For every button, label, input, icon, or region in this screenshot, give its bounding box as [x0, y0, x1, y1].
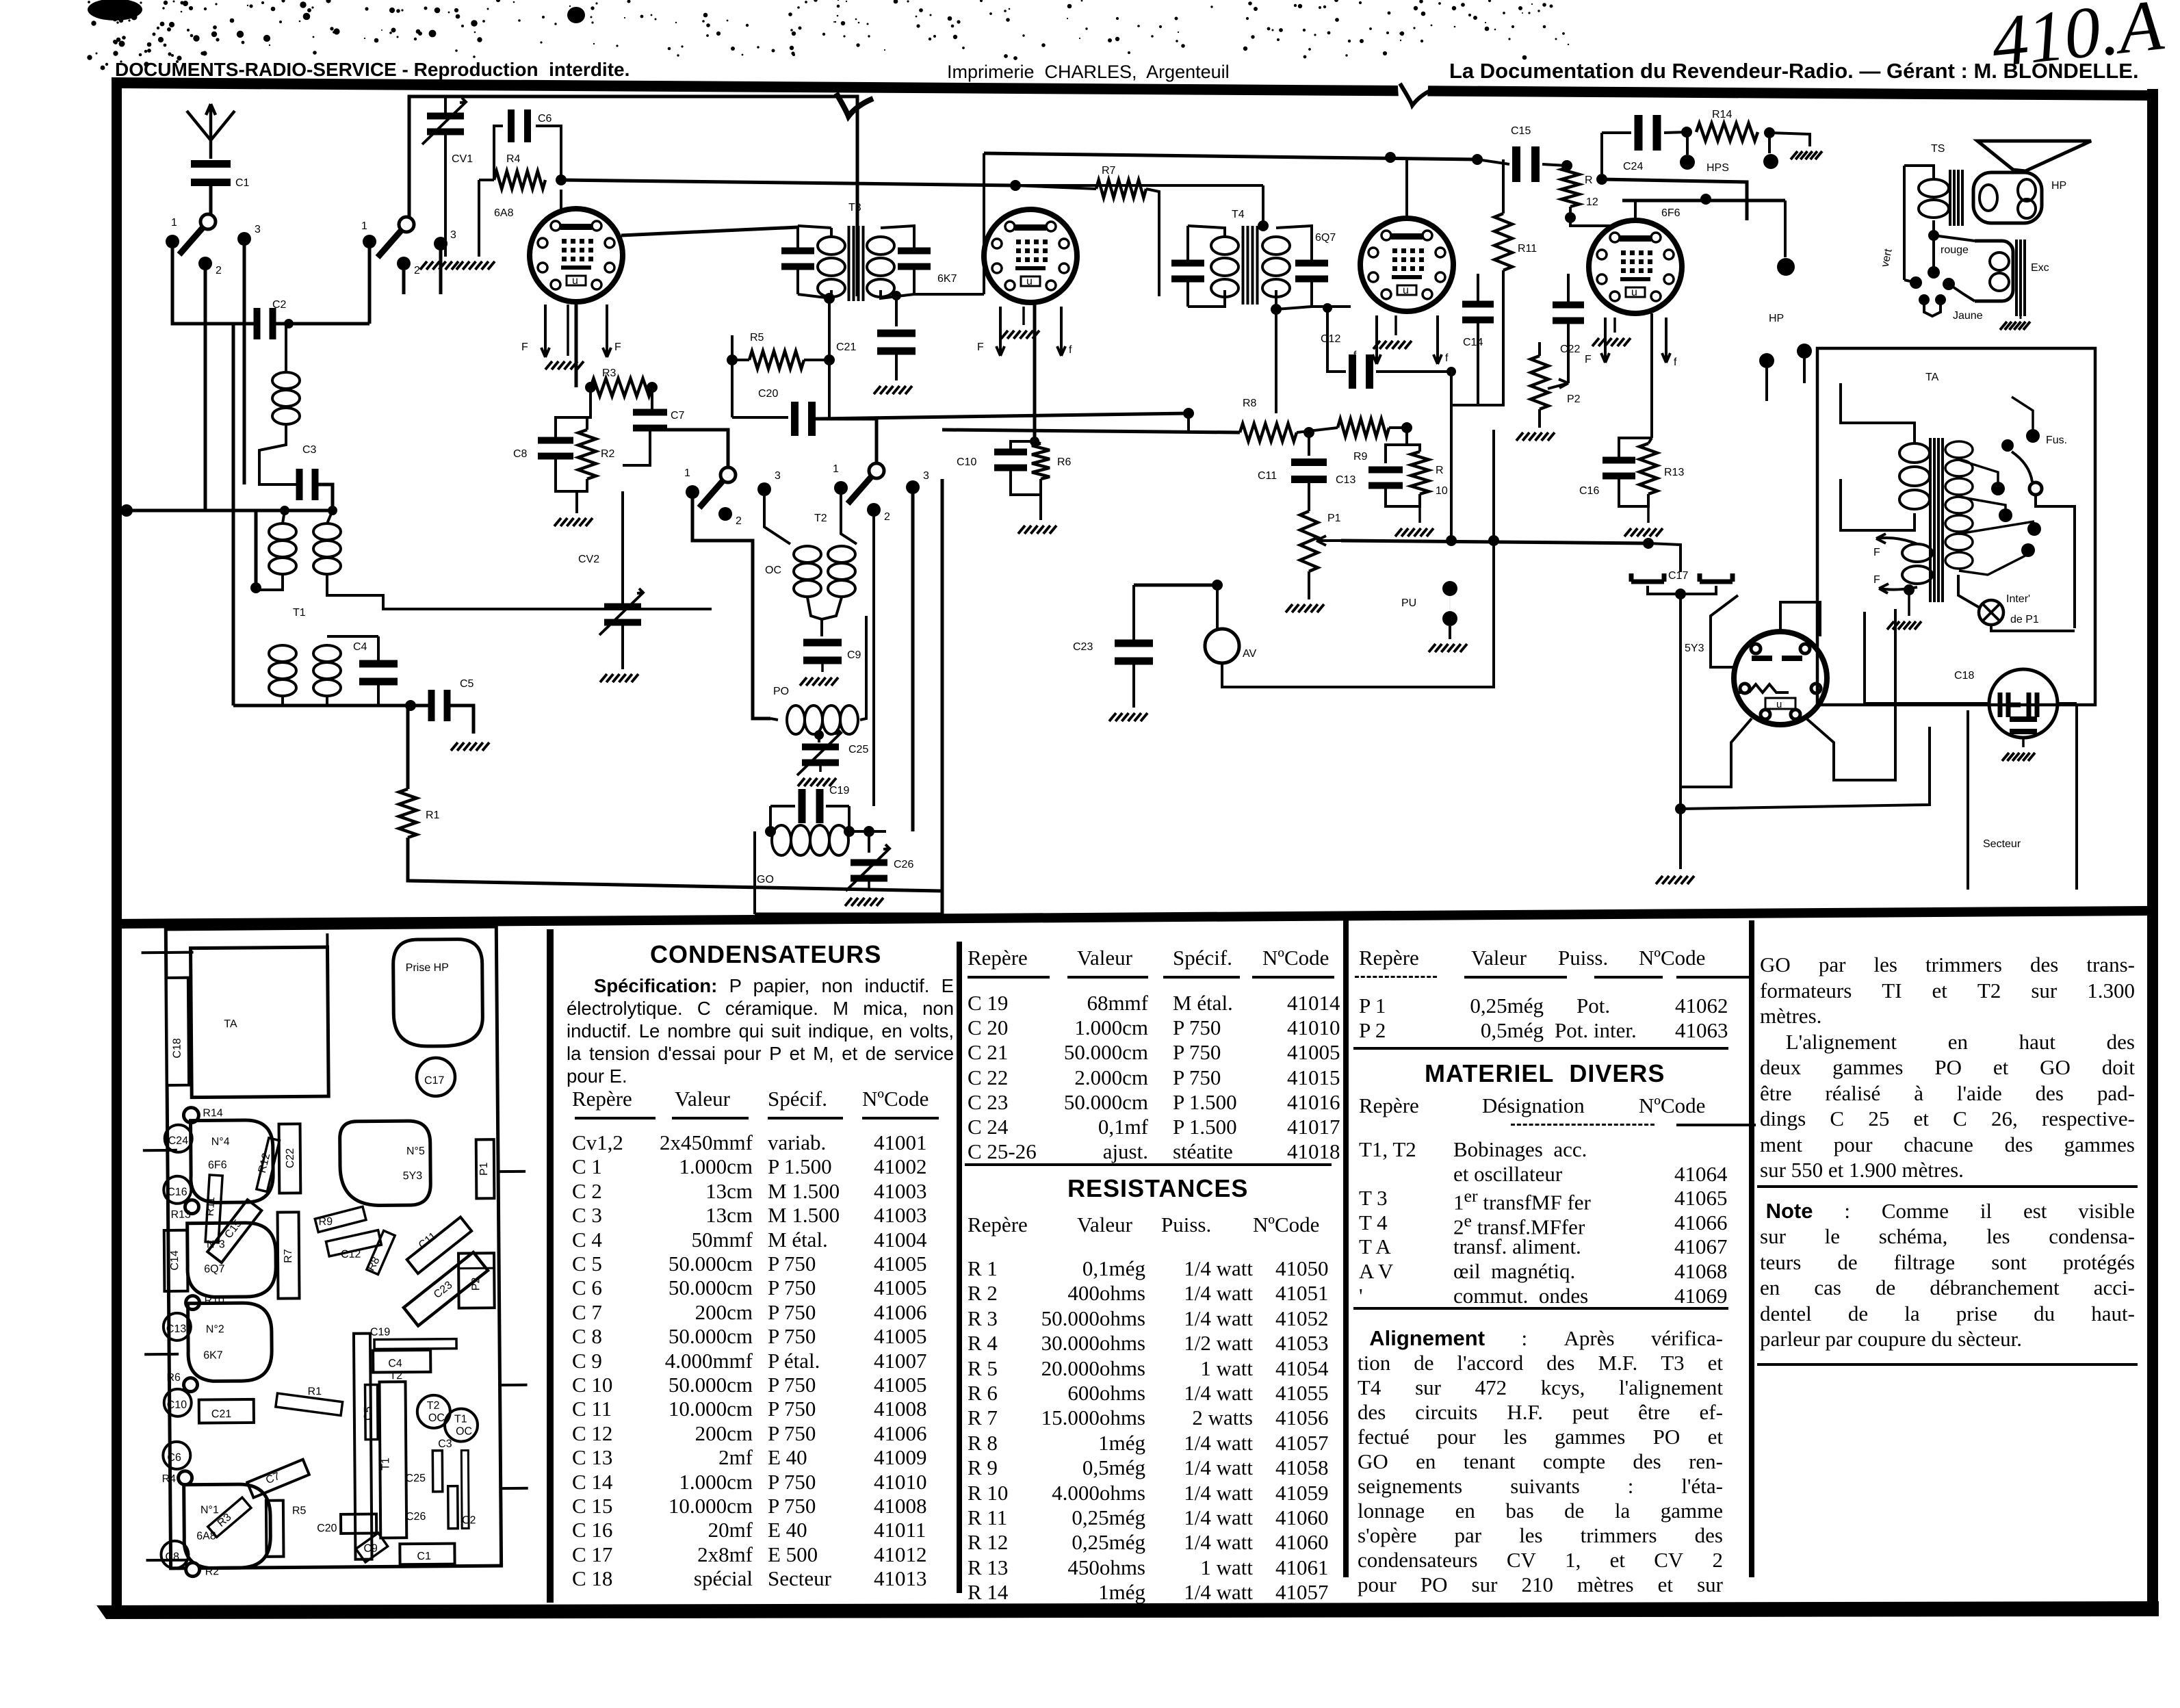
- R9 (chassis): [315, 1206, 366, 1232]
- svg-text:vert: vert: [1880, 248, 1895, 268]
- svg-text:R6: R6: [166, 1372, 181, 1384]
- tube 5Y3 (rectifier): [1734, 632, 1827, 725]
- wire: [813, 419, 877, 463]
- svg-text:u: u: [1026, 276, 1033, 287]
- wire 6A8 plate to T3: [621, 227, 798, 235]
- svg-text:C26: C26: [894, 859, 913, 870]
- svg-text:N°5: N°5: [406, 1146, 425, 1157]
- svg-text:Prise HP: Prise HP: [406, 962, 449, 974]
- TA secondary: [1945, 441, 1973, 458]
- ground: [798, 778, 836, 786]
- wire: [1679, 594, 1682, 809]
- svg-text:R9: R9: [1353, 451, 1368, 463]
- R8 (chassis): [367, 1230, 395, 1274]
- ground: [1791, 151, 1822, 159]
- ground: [1613, 318, 1616, 333]
- border frame bottom: [96, 1601, 2159, 1619]
- wire: [1134, 584, 1217, 587]
- ground: [800, 677, 838, 686]
- resistor R7: [1096, 180, 1146, 198]
- C9 (chassis): [356, 1533, 388, 1562]
- svg-text:HPS: HPS: [1707, 162, 1729, 174]
- svg-text:C10: C10: [957, 456, 976, 468]
- svg-text:C16: C16: [1579, 485, 1599, 497]
- resistor R8: [1240, 424, 1297, 441]
- svg-text:C3: C3: [302, 444, 317, 456]
- resistor R1: [406, 706, 410, 789]
- ground: [874, 386, 912, 394]
- svg-text:T1: T1: [380, 1458, 391, 1471]
- svg-text:T4: T4: [1232, 209, 1245, 220]
- wire: [1634, 200, 1637, 220]
- svg-text:10: 10: [1436, 485, 1448, 497]
- scan noise: [569, 5, 571, 7]
- capacitor C5: [428, 690, 435, 721]
- svg-text:C20: C20: [317, 1523, 337, 1534]
- wire left vertical: [232, 324, 235, 706]
- C20 (chassis): [341, 1514, 376, 1534]
- capacitor C6: [508, 109, 515, 142]
- lamp Inter de P1: [1979, 600, 2003, 625]
- transformer T1: [269, 523, 296, 540]
- svg-text:R11: R11: [1518, 243, 1537, 255]
- resistor R10: [1407, 445, 1420, 452]
- column divider 3: [1343, 920, 1349, 1577]
- ground: [554, 518, 593, 526]
- fold mark: [1397, 75, 1429, 108]
- wire mid rail: [818, 413, 1189, 419]
- ground: [2020, 316, 2022, 319]
- svg-text:f: f: [1674, 357, 1677, 368]
- svg-text:R: R: [1436, 465, 1444, 476]
- svg-text:OC: OC: [428, 1412, 445, 1424]
- svg-text:F: F: [977, 341, 984, 353]
- wire 6K7 plate: [1033, 302, 1037, 441]
- wire: [634, 430, 728, 467]
- svg-text:C25: C25: [406, 1473, 426, 1484]
- svg-text:T1: T1: [454, 1413, 467, 1425]
- capacitor C23: [1115, 640, 1153, 647]
- resistor R5: [749, 351, 804, 369]
- svg-text:C22: C22: [1560, 344, 1580, 355]
- wire: [233, 704, 429, 708]
- wire: [172, 248, 257, 324]
- svg-text:C15: C15: [1511, 125, 1531, 137]
- potentiometer P2: [1548, 379, 1568, 389]
- svg-text:P2: P2: [470, 1277, 482, 1291]
- svg-text:3: 3: [450, 229, 456, 241]
- P2 (chassis): [458, 1253, 495, 1308]
- svg-text:P2: P2: [1567, 393, 1581, 405]
- ground: [1394, 315, 1397, 335]
- svg-text:N°2: N°2: [206, 1323, 224, 1335]
- C24 (chassis): [165, 1125, 192, 1152]
- resistor R13: [1639, 443, 1657, 494]
- wire: [872, 516, 875, 806]
- C21 (chassis): [199, 1399, 254, 1423]
- svg-text:C9: C9: [847, 649, 861, 661]
- svg-text:C23: C23: [1073, 641, 1093, 653]
- resistor R12: [1561, 167, 1579, 207]
- svg-text:Jaune: Jaune: [1953, 310, 1983, 322]
- wire: [1780, 602, 1820, 636]
- svg-text:C2: C2: [272, 299, 287, 311]
- svg-text:u: u: [1776, 699, 1782, 710]
- svg-text:C20: C20: [758, 388, 778, 400]
- ground: [1109, 713, 1147, 721]
- wire: [243, 245, 246, 484]
- svg-text:C6: C6: [538, 113, 552, 125]
- magic eye AV: [1205, 629, 1239, 663]
- svg-text:C25: C25: [848, 744, 868, 755]
- wire: [318, 484, 333, 510]
- wires TS bottom: [1934, 235, 1975, 241]
- svg-text:R11: R11: [205, 1196, 218, 1216]
- chassis layout box: [141, 927, 528, 1578]
- svg-text:C4: C4: [388, 1358, 402, 1369]
- svg-text:C24: C24: [168, 1135, 189, 1147]
- wire top box 6Q7: [984, 153, 1477, 159]
- wire: [1865, 612, 1989, 703]
- svg-text:C19: C19: [829, 785, 849, 797]
- wire 6Q7 top: [1405, 159, 1408, 218]
- svg-text:CV2: CV2: [578, 554, 599, 565]
- R1 (chassis): [276, 1393, 343, 1415]
- svg-text:C14: C14: [1463, 337, 1483, 348]
- svg-text:TS: TS: [1931, 143, 1945, 155]
- svg-text:HP: HP: [1769, 313, 1784, 324]
- R14 (chassis): [183, 1108, 198, 1123]
- svg-text:6K7: 6K7: [937, 273, 957, 285]
- wire: [204, 270, 207, 510]
- capacitor C19: [799, 789, 806, 823]
- svg-text:rouge: rouge: [1941, 244, 1969, 256]
- capacitor C10: [994, 449, 1027, 456]
- capacitor C1: [191, 160, 231, 168]
- R13 (chassis): [185, 1200, 198, 1214]
- wire: [1600, 133, 1603, 179]
- wire: [764, 495, 790, 544]
- R4 (chassis): [179, 1471, 192, 1485]
- tube 6Q7: [1360, 218, 1453, 311]
- svg-text:N°3: N°3: [207, 1239, 225, 1250]
- divider line: [113, 906, 2147, 929]
- node: [284, 319, 294, 328]
- border frame right: [2147, 89, 2158, 1614]
- svg-text:C5: C5: [460, 678, 474, 690]
- svg-text:f: f: [1445, 352, 1449, 364]
- ground: [1516, 432, 1555, 441]
- svg-text:C1: C1: [235, 177, 250, 189]
- wire top rail: [409, 96, 857, 296]
- svg-text:u: u: [1631, 287, 1637, 298]
- capacitor C20: [791, 402, 799, 436]
- svg-text:R6: R6: [1057, 456, 1072, 468]
- svg-text:R9: R9: [319, 1216, 333, 1228]
- svg-text:C8: C8: [513, 448, 528, 460]
- svg-text:PU: PU: [1401, 597, 1416, 609]
- transformer TA (chassis): [191, 947, 329, 1098]
- chassis tick marks: [141, 932, 528, 1560]
- capacitor C11: [1308, 432, 1310, 456]
- svg-text:C18: C18: [1954, 670, 1974, 682]
- taps: [1959, 460, 1998, 483]
- svg-text:6K7: 6K7: [203, 1349, 223, 1361]
- svg-text:C17: C17: [424, 1075, 445, 1087]
- resistor R3: [591, 378, 652, 396]
- svg-text:6Q7: 6Q7: [204, 1263, 224, 1275]
- resistor R14: [1696, 123, 1758, 141]
- svg-text:C3: C3: [438, 1438, 452, 1450]
- transformer TA: [1899, 443, 1930, 463]
- ground: [1656, 876, 1694, 884]
- wire: [1711, 595, 1738, 667]
- svg-text:P1: P1: [478, 1162, 490, 1176]
- svg-text:N°1: N°1: [200, 1504, 219, 1516]
- svg-text:T2: T2: [427, 1400, 440, 1412]
- column divider 1: [547, 929, 554, 1603]
- svg-text:C6: C6: [167, 1452, 181, 1464]
- svg-text:C21: C21: [211, 1408, 232, 1420]
- variable capacitor CV1: [427, 113, 464, 120]
- svg-text:C16: C16: [167, 1187, 187, 1198]
- svg-text:2: 2: [736, 515, 742, 527]
- wire grid link: [914, 293, 984, 296]
- C14 (chassis): [164, 1230, 188, 1291]
- svg-text:F: F: [1873, 547, 1880, 558]
- antenna: [187, 104, 235, 159]
- svg-text:CV1: CV1: [452, 153, 473, 165]
- svg-text:C21: C21: [836, 341, 856, 353]
- resistor R2: [578, 430, 596, 479]
- wire oscillator box: [941, 479, 944, 914]
- wire: [368, 248, 372, 324]
- capacitor C24: [1635, 115, 1643, 151]
- R3 (chassis): [208, 1497, 251, 1537]
- svg-text:6Q7: 6Q7: [1315, 232, 1336, 244]
- svg-text:R2: R2: [601, 448, 615, 460]
- R7 (chassis): [278, 1212, 300, 1298]
- svg-text:GO: GO: [757, 874, 774, 885]
- svg-text:R7: R7: [283, 1249, 294, 1263]
- wire 6F6 cathode: [1650, 313, 1653, 438]
- secteur leads: [1967, 710, 1969, 890]
- svg-text:1: 1: [171, 217, 177, 229]
- svg-text:R: R: [1585, 174, 1593, 186]
- T2 OC / T1 OC discs (chassis): [417, 1395, 450, 1428]
- R12 (chassis): [257, 1138, 280, 1192]
- svg-text:PO: PO: [773, 686, 789, 697]
- switch S2: [378, 224, 406, 257]
- wire: [273, 322, 369, 326]
- svg-text:R13: R13: [170, 1209, 191, 1221]
- svg-text:R14: R14: [1712, 109, 1732, 120]
- svg-text:C18: C18: [172, 1038, 183, 1059]
- coil PO: [787, 706, 805, 734]
- svg-text:C13: C13: [1336, 474, 1355, 486]
- trimmer C26: [868, 831, 870, 853]
- svg-text:P1: P1: [1327, 513, 1341, 524]
- capacitor C16: [1602, 457, 1635, 464]
- wire: [1492, 430, 1495, 541]
- svg-text:C14: C14: [169, 1250, 181, 1271]
- tube N3 6Q7 (chassis): [187, 1223, 276, 1297]
- capacitor C12: [1326, 308, 1329, 346]
- svg-text:R1: R1: [308, 1386, 322, 1397]
- wire plate: [575, 302, 578, 387]
- wire: [692, 498, 770, 719]
- Prise HP: [393, 939, 482, 1046]
- svg-text:Exc: Exc: [2031, 262, 2049, 274]
- tube N5 5Y3 (chassis): [339, 1121, 430, 1206]
- ground: [1018, 526, 1056, 534]
- C1 (chassis): [400, 1544, 454, 1565]
- svg-text:R1: R1: [426, 810, 440, 821]
- svg-text:1: 1: [684, 467, 690, 479]
- svg-text:R4: R4: [506, 153, 521, 165]
- potentiometer P1: [1300, 511, 1318, 571]
- wire: [911, 493, 915, 831]
- svg-text:C11: C11: [1258, 470, 1277, 482]
- switch S3: [699, 475, 728, 508]
- P1 (chassis): [476, 1139, 495, 1198]
- svg-text:R3: R3: [602, 367, 617, 379]
- ground: [451, 742, 489, 751]
- wire: [1769, 133, 1810, 146]
- C10 (chassis): [164, 1389, 192, 1416]
- tube 6K7: [984, 209, 1077, 302]
- svg-text:3: 3: [923, 470, 929, 482]
- wire: [1450, 372, 1453, 540]
- svg-text:R12: R12: [257, 1152, 272, 1174]
- svg-text:C4: C4: [353, 641, 367, 653]
- ground: [1887, 621, 1921, 630]
- border frame top rule: [112, 77, 2157, 101]
- column divider 2: [957, 942, 962, 1593]
- wire AVC bus: [1341, 541, 1648, 543]
- svg-text:R4: R4: [162, 1473, 177, 1485]
- ground: [1395, 528, 1433, 536]
- capacitor C7: [633, 409, 667, 416]
- svg-text:HP: HP: [2051, 180, 2066, 192]
- wire: [209, 184, 213, 216]
- wire: [1187, 413, 1190, 432]
- wire: [1648, 543, 1681, 572]
- svg-text:de P1: de P1: [2010, 614, 2039, 625]
- C6 (chassis): [163, 1442, 190, 1469]
- svg-text:2: 2: [414, 265, 420, 276]
- svg-text:TA: TA: [224, 1018, 237, 1030]
- svg-text:f: f: [1069, 344, 1072, 356]
- capacitor C3: [296, 469, 303, 500]
- wire: [1602, 179, 1747, 220]
- ground: [1022, 307, 1025, 325]
- svg-text:C26: C26: [406, 1511, 426, 1523]
- wire: [450, 706, 473, 734]
- wire: [1681, 727, 1930, 809]
- C22 (chassis): [279, 1124, 301, 1193]
- fuse Fus: [2026, 429, 2040, 443]
- resistor R9: [1338, 419, 1389, 437]
- wire grid: [1312, 305, 1351, 308]
- node: [250, 582, 261, 593]
- switch S4: [848, 471, 877, 504]
- svg-text:6F6: 6F6: [1661, 207, 1681, 219]
- capacitor C9: [803, 639, 842, 647]
- tube 6F6: [1589, 220, 1682, 313]
- switch S1 (antenna): [179, 222, 208, 255]
- svg-text:C17: C17: [1668, 570, 1688, 582]
- R2 (chassis): [186, 1563, 200, 1577]
- svg-text:u: u: [572, 275, 578, 287]
- svg-text:TA: TA: [1925, 372, 1939, 383]
- C16 (chassis): [164, 1176, 191, 1204]
- capacitor C18 (secteur): [1989, 669, 2058, 738]
- svg-text:OC: OC: [456, 1425, 472, 1437]
- C12 (chassis): [326, 1230, 381, 1256]
- ground: [1286, 604, 1324, 612]
- wire: [402, 270, 406, 294]
- svg-text:Fus.: Fus.: [2046, 435, 2067, 446]
- speaker voice coil HP: [1973, 172, 2042, 223]
- ground: [1624, 528, 1663, 536]
- C23 (chassis): [404, 1252, 488, 1325]
- C15 (chassis): [207, 1200, 261, 1263]
- svg-text:N°4: N°4: [211, 1136, 230, 1148]
- C11 (chassis): [407, 1217, 471, 1274]
- capacitor C15: [1512, 146, 1520, 182]
- node: [1928, 230, 1939, 241]
- svg-text:T3: T3: [848, 202, 861, 213]
- svg-text:1: 1: [361, 220, 367, 232]
- tube 6A8: [530, 209, 623, 302]
- svg-text:5Y3: 5Y3: [1685, 643, 1704, 654]
- svg-text:5Y3: 5Y3: [403, 1170, 423, 1182]
- svg-text:Secteur: Secteur: [1983, 838, 2021, 850]
- svg-text:R5: R5: [750, 332, 764, 344]
- svg-text:12: 12: [1586, 196, 1598, 208]
- wire rail: [942, 430, 1240, 432]
- capacitor C4: [359, 660, 398, 668]
- C3 C2 (chassis): [432, 1451, 442, 1492]
- node: [556, 174, 567, 185]
- svg-text:C13: C13: [166, 1323, 187, 1335]
- coil T1 osc coupling: [272, 372, 300, 389]
- svg-text:C12: C12: [341, 1249, 361, 1260]
- resistor R6: [1032, 443, 1050, 479]
- wire: [1784, 200, 1787, 257]
- svg-text:F: F: [1585, 354, 1592, 365]
- ground: [1429, 644, 1467, 652]
- winding Exc: [1975, 241, 2013, 301]
- svg-text:1: 1: [833, 463, 839, 475]
- svg-text:3: 3: [255, 224, 261, 235]
- column divider 4: [1749, 920, 1754, 1577]
- svg-text:C9: C9: [363, 1543, 378, 1555]
- speaker cone: [1977, 141, 2091, 171]
- svg-text:6F6: 6F6: [208, 1159, 227, 1171]
- tube N2 6K7 (chassis): [187, 1303, 272, 1382]
- capacitor C14: [1462, 301, 1494, 308]
- svg-text:2: 2: [884, 511, 890, 523]
- svg-text:R2: R2: [205, 1566, 220, 1577]
- ground: [420, 261, 458, 270]
- wire: [2058, 702, 2077, 705]
- R10 (chassis): [185, 1296, 199, 1310]
- ground: [567, 305, 569, 356]
- R5 (chassis): [266, 1501, 284, 1557]
- svg-text:6A8: 6A8: [494, 207, 514, 219]
